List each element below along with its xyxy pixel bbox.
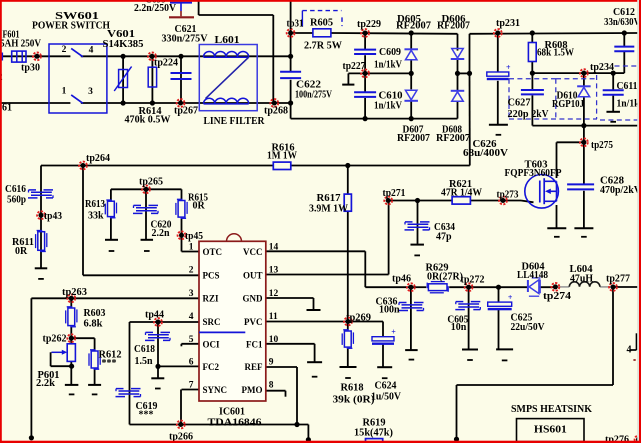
- svg-text:L601: L601: [215, 35, 240, 46]
- svg-text:tp43: tp43: [44, 211, 62, 222]
- svg-text:OCI: OCI: [203, 340, 221, 350]
- svg-text:tp269: tp269: [346, 312, 371, 323]
- svg-text:tp31: tp31: [287, 19, 304, 30]
- svg-text:tp262: tp262: [43, 334, 67, 345]
- svg-text:tp277: tp277: [606, 274, 630, 285]
- svg-text:61: 61: [2, 103, 12, 114]
- svg-text:RF2007: RF2007: [396, 21, 431, 32]
- svg-text:3: 3: [189, 289, 194, 299]
- svg-text:TDA16846: TDA16846: [208, 418, 262, 429]
- svg-text:4: 4: [89, 46, 94, 56]
- svg-text:tp46: tp46: [392, 274, 411, 285]
- svg-text:tp264: tp264: [86, 153, 110, 164]
- svg-text:1u/50V: 1u/50V: [371, 391, 402, 402]
- svg-text:RF2007: RF2007: [437, 21, 470, 32]
- svg-text:39k (0R): 39k (0R): [333, 394, 375, 405]
- svg-text:R605: R605: [310, 18, 333, 29]
- svg-text:SMPS HEATSINK: SMPS HEATSINK: [511, 404, 593, 415]
- svg-text:1n/1kV: 1n/1kV: [374, 101, 403, 112]
- svg-text:tp273: tp273: [497, 190, 519, 201]
- svg-text:PVC: PVC: [244, 317, 263, 327]
- svg-text:S14K385: S14K385: [103, 39, 144, 50]
- svg-text:11: 11: [269, 312, 278, 322]
- svg-text:1M 1W: 1M 1W: [267, 151, 297, 162]
- svg-text:tp229: tp229: [357, 19, 381, 30]
- svg-text:47uH: 47uH: [570, 274, 593, 285]
- svg-text:tp271: tp271: [383, 188, 406, 199]
- svg-text:RGP10J: RGP10J: [552, 99, 584, 110]
- svg-text:VCC: VCC: [243, 247, 263, 257]
- svg-text:13: 13: [269, 266, 279, 276]
- svg-text:2.7R 5W: 2.7R 5W: [304, 41, 342, 52]
- svg-text:tp263: tp263: [62, 287, 87, 298]
- svg-text:tp268: tp268: [264, 105, 288, 116]
- svg-text:RZI: RZI: [203, 294, 220, 304]
- svg-text:tp231: tp231: [496, 18, 520, 29]
- svg-text:2.2k: 2.2k: [36, 378, 55, 389]
- svg-text:tp30: tp30: [21, 63, 40, 74]
- svg-text:330n/275V: 330n/275V: [162, 34, 208, 45]
- svg-text:8: 8: [269, 380, 274, 390]
- svg-text:100n: 100n: [379, 305, 400, 316]
- svg-text:560p: 560p: [7, 195, 26, 206]
- svg-text:REF: REF: [245, 362, 264, 372]
- svg-text:C624: C624: [375, 381, 397, 392]
- svg-text:2: 2: [62, 45, 67, 55]
- svg-text:R603: R603: [84, 308, 106, 319]
- svg-text:OTC: OTC: [203, 247, 223, 257]
- svg-text:2.2n: 2.2n: [152, 228, 170, 239]
- svg-text:68u/400V: 68u/400V: [463, 148, 509, 159]
- svg-text:FQPF3N60FP: FQPF3N60FP: [505, 168, 562, 179]
- svg-text:1n/1kV: 1n/1kV: [374, 60, 403, 71]
- svg-text:PMO: PMO: [242, 385, 263, 395]
- svg-text:C627: C627: [508, 98, 531, 109]
- svg-text:PCS: PCS: [203, 270, 220, 280]
- svg-text:FC2: FC2: [203, 362, 220, 372]
- svg-text:1.5n: 1.5n: [135, 356, 153, 367]
- svg-text:tp272: tp272: [461, 275, 485, 286]
- svg-text:68k 1.5W: 68k 1.5W: [537, 48, 574, 59]
- svg-text:RF2007: RF2007: [436, 133, 470, 144]
- svg-text:tp275: tp275: [591, 140, 613, 151]
- svg-text:1n/1k: 1n/1k: [617, 99, 640, 110]
- svg-text:tp45: tp45: [185, 231, 203, 242]
- svg-text:15k(47k): 15k(47k): [354, 428, 393, 439]
- svg-text:2kV: 2kV: [532, 109, 550, 120]
- svg-text:tp274: tp274: [543, 291, 571, 302]
- svg-text:100n/275V: 100n/275V: [295, 90, 333, 101]
- svg-text:3.9M 1W: 3.9M 1W: [309, 204, 348, 215]
- svg-text:GND: GND: [243, 294, 264, 304]
- svg-text:6: 6: [189, 358, 194, 368]
- svg-text:33k: 33k: [88, 211, 104, 222]
- svg-text:470p/2kV: 470p/2kV: [600, 185, 641, 196]
- svg-text:1: 1: [189, 242, 194, 252]
- svg-text:+: +: [506, 63, 511, 72]
- svg-text:47R 1/4W: 47R 1/4W: [441, 188, 482, 199]
- svg-text:+: +: [391, 328, 396, 337]
- svg-text:12: 12: [269, 289, 279, 299]
- svg-text:6.8k: 6.8k: [84, 319, 103, 330]
- svg-text:IC601: IC601: [219, 407, 245, 418]
- svg-text:C609: C609: [379, 47, 401, 58]
- svg-text:tp266: tp266: [169, 431, 193, 442]
- svg-text:C611: C611: [617, 81, 638, 92]
- svg-text:FC1: FC1: [246, 340, 263, 350]
- svg-text:POWER SWITCH: POWER SWITCH: [32, 21, 110, 32]
- svg-text:4: 4: [189, 312, 194, 322]
- svg-text:9: 9: [269, 358, 274, 368]
- svg-text:R618: R618: [341, 383, 364, 394]
- svg-text:33n/630V: 33n/630V: [604, 17, 641, 28]
- svg-text:4: 4: [627, 345, 632, 356]
- svg-text:***: ***: [102, 358, 117, 369]
- svg-text:R613: R613: [85, 199, 105, 210]
- svg-text:tp267: tp267: [174, 106, 198, 117]
- svg-text:C616: C616: [5, 184, 26, 195]
- svg-text:SYNC: SYNC: [203, 385, 228, 395]
- svg-text:22u/50V: 22u/50V: [511, 322, 546, 333]
- svg-text:47p: 47p: [436, 231, 452, 242]
- svg-text:10n: 10n: [451, 322, 467, 333]
- svg-text:0R: 0R: [15, 246, 28, 257]
- svg-text:LINE FILTER: LINE FILTER: [204, 116, 265, 127]
- svg-text:3: 3: [88, 87, 93, 97]
- svg-text:HS601: HS601: [534, 425, 567, 436]
- svg-text:220p: 220p: [508, 109, 529, 120]
- svg-text:SRC: SRC: [203, 317, 221, 327]
- svg-text:1: 1: [62, 87, 67, 97]
- svg-text:470k 0.5W: 470k 0.5W: [125, 115, 171, 126]
- svg-text:tp224: tp224: [154, 58, 178, 69]
- svg-text:tp227: tp227: [343, 61, 366, 72]
- svg-text:L604: L604: [570, 264, 593, 275]
- svg-text:LL4148: LL4148: [517, 270, 548, 281]
- svg-text:5: 5: [189, 335, 194, 345]
- svg-text:10: 10: [269, 335, 279, 345]
- svg-text:2: 2: [189, 266, 194, 276]
- svg-text:R617: R617: [317, 193, 341, 204]
- svg-text:0R: 0R: [193, 201, 206, 212]
- svg-text:7: 7: [189, 380, 194, 390]
- svg-text:+: +: [508, 293, 513, 302]
- svg-text:tp234: tp234: [590, 62, 614, 73]
- svg-text:OUT: OUT: [243, 270, 263, 280]
- svg-text:14: 14: [269, 242, 279, 252]
- svg-text:0R(27R): 0R(27R): [427, 272, 463, 283]
- svg-text:tp44: tp44: [145, 310, 164, 321]
- svg-text:RF2007: RF2007: [397, 133, 430, 144]
- svg-text:***: ***: [139, 410, 154, 421]
- svg-text:5AH 250V: 5AH 250V: [0, 39, 41, 50]
- svg-text:C618: C618: [134, 344, 155, 355]
- svg-text:tp265: tp265: [139, 177, 163, 188]
